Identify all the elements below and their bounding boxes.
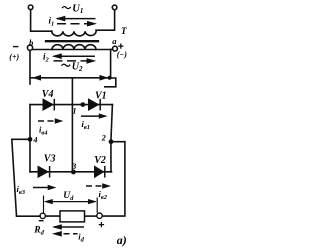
terminal b <box>27 45 32 50</box>
output terminal plus <box>97 213 102 218</box>
wire hook at rail right end <box>105 78 116 87</box>
wire load right <box>85 215 97 217</box>
current arrow i2 solid left <box>53 54 95 59</box>
node 4 dot <box>28 137 33 142</box>
svg-text:3: 3 <box>71 162 76 171</box>
svg-text:V1: V1 <box>95 91 107 102</box>
label minus left <box>13 46 18 48</box>
node dot top rail right <box>108 76 112 80</box>
label plus at output <box>99 222 104 227</box>
load resistor Rd box <box>60 211 85 222</box>
svg-text:а): а) <box>117 233 127 247</box>
Ud dimension arrow <box>45 199 97 204</box>
terminal right top <box>112 5 117 10</box>
svg-text:T: T <box>121 26 127 36</box>
wire secondary right lead <box>96 49 113 51</box>
svg-text:V3: V3 <box>44 154 56 165</box>
primary winding L1 <box>52 31 96 36</box>
svg-text:2: 2 <box>101 133 106 142</box>
diode V2 <box>95 166 105 178</box>
label minus at output <box>39 220 44 222</box>
current arrow iB2 dashed right <box>86 184 110 189</box>
node 2 dot <box>109 139 114 144</box>
label ~U2 <box>62 64 71 66</box>
current arrow i1 solid left <box>57 16 96 21</box>
wire primary left lead <box>31 10 52 31</box>
svg-text:(+): (+) <box>9 53 19 62</box>
wire secondary left lead <box>33 49 96 51</box>
current arrow iB3 solid right <box>33 185 56 190</box>
wire b down to bridge <box>29 50 31 84</box>
wire bridge right vertical <box>111 105 113 172</box>
wire diode row top <box>30 104 112 106</box>
secondary winding L2 <box>52 45 96 50</box>
arrow on top rail left <box>34 76 42 80</box>
wire diode row bottom <box>30 171 112 173</box>
current arrow i1 dashed right <box>57 21 96 26</box>
current arrow iB1 solid right <box>81 114 107 119</box>
wire bridge left vertical <box>29 105 31 172</box>
wire bridge center vertical <box>71 78 73 172</box>
svg-text:b: b <box>29 38 33 48</box>
node 1 dot <box>80 102 85 107</box>
node 3 dot <box>71 170 76 175</box>
label plus right <box>118 44 123 49</box>
wire node2 branch right <box>102 142 125 216</box>
current arrow iB4 dashed right <box>38 119 63 124</box>
diode V3 <box>38 166 50 178</box>
wire top rail <box>30 77 111 79</box>
wire load left <box>45 215 60 217</box>
diode V4 <box>43 99 54 111</box>
terminal a <box>113 46 118 51</box>
arrow on top rail right <box>99 76 107 80</box>
transformer core <box>46 40 98 42</box>
svg-text:4: 4 <box>33 135 38 144</box>
terminal left top <box>28 5 33 10</box>
current arrow i2 dashed right <box>54 59 96 64</box>
output terminal minus <box>40 213 45 218</box>
current arrow id solid left <box>53 225 84 230</box>
Ud right tick <box>96 198 98 213</box>
wire primary right lead <box>96 10 115 30</box>
Ud left tick <box>43 196 45 214</box>
wire node4 branch left <box>12 139 40 216</box>
svg-text:V2: V2 <box>94 155 106 166</box>
svg-text:V4: V4 <box>42 89 54 100</box>
svg-text:(−): (−) <box>117 50 128 59</box>
current arrow id dashed left <box>53 231 78 236</box>
diode V1 <box>89 99 101 111</box>
svg-text:a: a <box>112 36 117 46</box>
label ~U1 <box>62 7 71 9</box>
wire a down to bridge <box>110 49 112 78</box>
svg-text:1: 1 <box>73 107 77 116</box>
